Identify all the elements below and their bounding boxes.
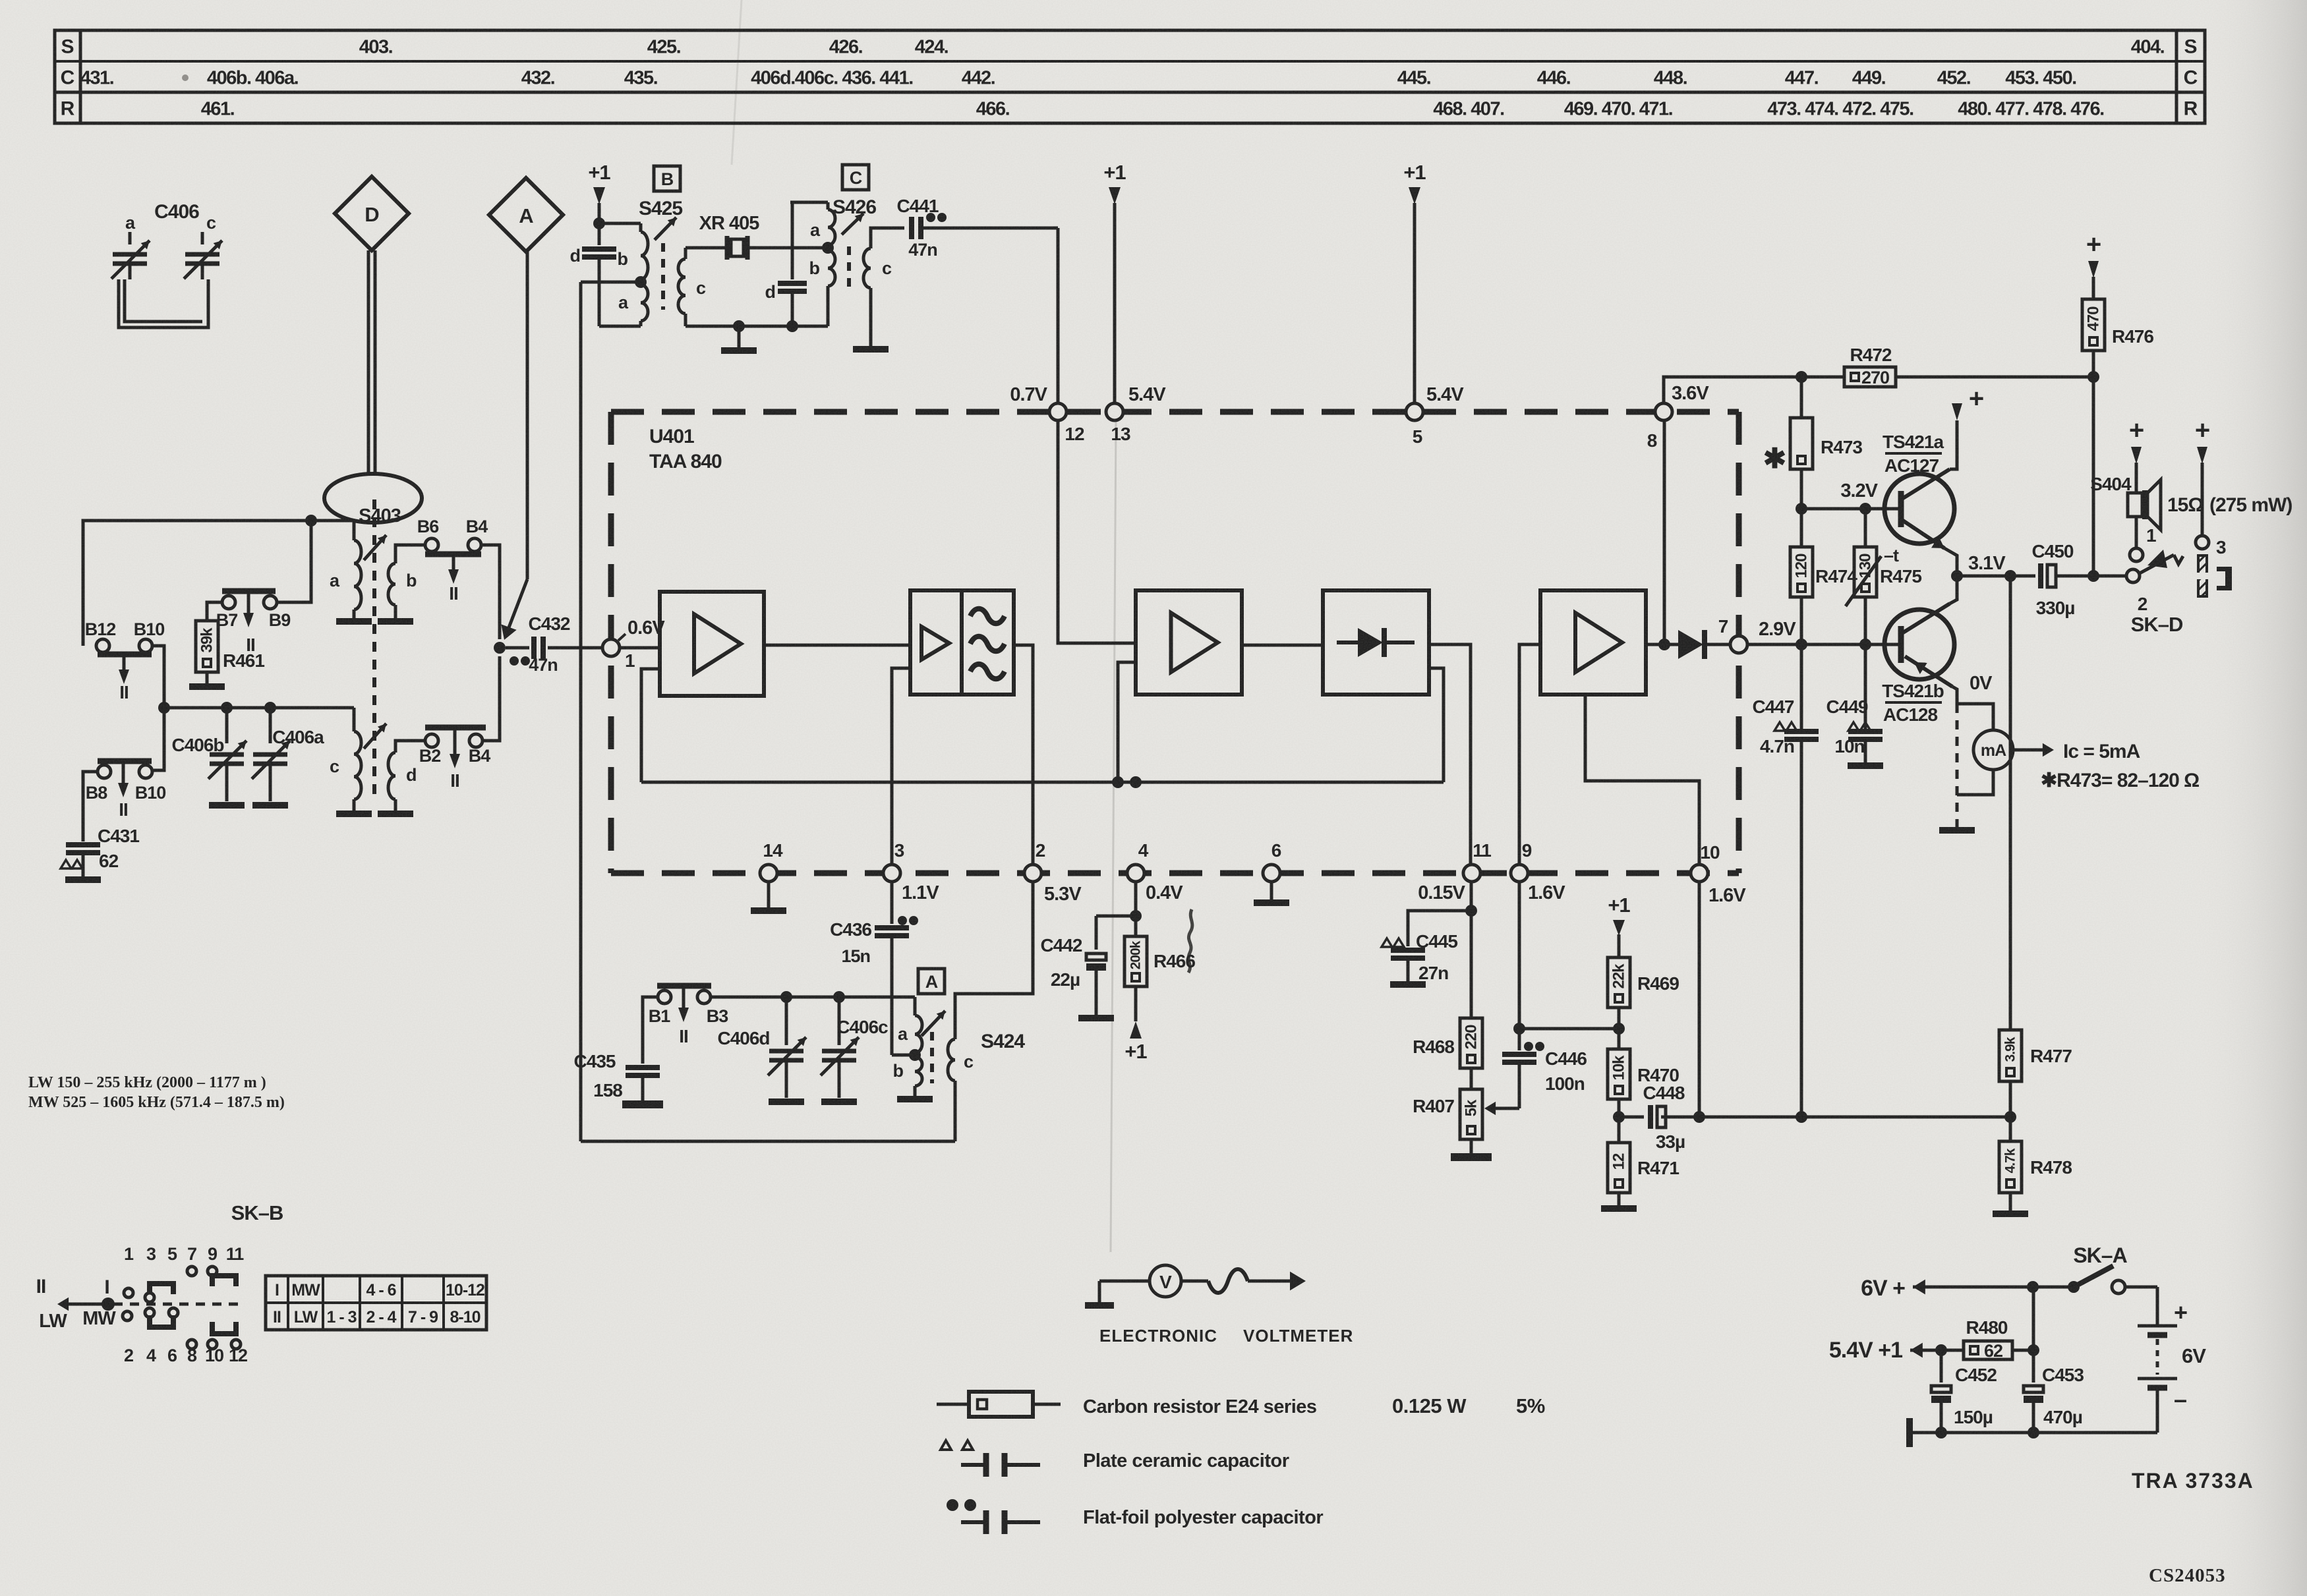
wire B7 to R461 <box>207 602 222 621</box>
TS421a base rail <box>1796 480 1902 515</box>
capacitor C445 27n (plate ceramic) <box>1382 931 1457 984</box>
SK-B bracket 9-11 <box>212 1276 236 1286</box>
LW frequency range note <box>28 1074 266 1091</box>
S426 secondary coil c <box>853 228 904 349</box>
wire C441 to pin 12 <box>1057 228 1060 403</box>
voltage 2.9V at pin 7 <box>1759 619 1796 640</box>
label S425 <box>639 198 682 219</box>
wire lower B4 to C432 node <box>482 656 500 741</box>
5.4V +1 rail <box>1829 1338 1964 1363</box>
potentiometer R407 5k <box>1413 1068 1492 1157</box>
ground at pin 6 <box>1254 882 1289 903</box>
SK-B row II arrow label <box>36 1276 46 1297</box>
SK-B wafer table <box>266 1276 486 1330</box>
voltage 1.6V at pin 9 <box>1528 882 1565 903</box>
amplifier block 3 (IF amp) <box>1136 590 1242 695</box>
label R472 value <box>0 0 1 1</box>
S403 core dashed line <box>372 499 376 794</box>
node at C432 <box>494 642 506 654</box>
SK-B bottom contact numbers <box>124 1346 247 1365</box>
wire B9 to rail <box>277 521 311 602</box>
node S425 top <box>593 217 605 229</box>
switch B7/B9 (band II) <box>216 591 291 655</box>
junction node B9 rail <box>305 515 317 527</box>
pin12 wire to block3 <box>1058 420 1136 643</box>
block1 AGC notch <box>641 669 660 782</box>
capacitor S426-d <box>765 202 807 326</box>
block5 output node <box>1646 639 1678 650</box>
variable capacitor C406c <box>821 997 888 1102</box>
+1 supply to pin 13 <box>1103 161 1126 403</box>
voltage 0.7V at pin 12 <box>1010 384 1047 405</box>
voltage 3.6V at pin 8 <box>1672 383 1709 404</box>
resistor R471 12 <box>1601 1117 1679 1209</box>
capacitor C453 470u (electrolytic) <box>2024 1350 2084 1433</box>
wire pin3 to C436 <box>891 882 894 924</box>
SK-B contact 9 circle <box>208 1267 217 1276</box>
S425 secondary coil c <box>678 248 706 326</box>
ferrite rod (antenna) ellipse <box>324 474 422 523</box>
label U401 TAA 840 <box>649 426 722 472</box>
junction rail pins9-R469 <box>1519 1023 1625 1035</box>
wire pin10 down to rail <box>1698 882 1701 1117</box>
S424 primary coil a <box>898 997 922 1053</box>
wire to C445 <box>1408 911 1471 946</box>
wire upper B4 to C432 node <box>481 545 500 639</box>
voltage 5.4V at pin 13 <box>1128 384 1166 405</box>
label SK-D <box>2131 613 2183 636</box>
pin 12 of U401 <box>1049 403 1084 444</box>
+ supply above TS421a <box>1952 384 1983 423</box>
pin 10 of U401 <box>1691 842 1720 882</box>
capacitor C436 15n (flat-foil) <box>830 916 918 1055</box>
resistor R477 3.9k <box>1999 1030 2072 1117</box>
+1 supply to S425 <box>588 161 610 223</box>
amplifier block 1 (RF amp) <box>660 592 764 696</box>
oscillator loop left riser <box>579 282 583 1141</box>
mixer/filter block 2 <box>910 590 1014 695</box>
voltage 0.6V at pin 1 <box>628 617 665 639</box>
SK-D moving contact arrow <box>2147 550 2167 568</box>
oscillator loop bottom rail <box>581 1140 955 1143</box>
SK-D spring contact <box>2140 555 2183 573</box>
capacitor C448 33u (electrolytic) <box>1619 1083 1699 1152</box>
pin 6 of U401 <box>1263 840 1281 882</box>
wire R480 junction to 6V rail <box>2032 1287 2035 1350</box>
+1 supply to R469 <box>1608 894 1630 957</box>
resistor R469 22k <box>1608 957 1679 1029</box>
SK-B bracket 10-12 <box>208 1322 241 1349</box>
SK-B bracket 4-6 <box>145 1308 178 1327</box>
pin 11 of U401 <box>1463 840 1491 882</box>
wire B8 down to C431 <box>83 772 98 841</box>
capacitor C432 47n (flat-foil) <box>506 613 603 675</box>
component location table S/C/R <box>55 30 2205 123</box>
block5 notch to pin10 <box>1585 695 1699 865</box>
SK-B contact 8 circle <box>187 1340 196 1349</box>
wire R476 junction down to output rail <box>2088 377 2099 582</box>
wire junction to C442 <box>1096 915 1136 918</box>
resistor R474 120 <box>1790 509 1857 642</box>
battery return rail <box>1910 1418 2157 1447</box>
wire B12 riser / top rail to S403 <box>83 521 354 646</box>
gang tuning capacitor C406 (sections a, c) <box>111 201 222 328</box>
switch SK-A <box>2073 1243 2127 1294</box>
block2 notch to pin 3 <box>892 668 910 865</box>
frame B <box>654 166 680 191</box>
resistor R472 270 <box>1801 345 2093 387</box>
pin 13 of U401 <box>1106 403 1130 444</box>
resistor R473 (82-120) <box>1763 377 1862 509</box>
block3 bias notch <box>1118 662 1136 782</box>
pin 4 of U401 <box>1127 840 1149 882</box>
S403 coil a <box>330 540 372 621</box>
S403 trimmer arrow upper <box>364 535 386 560</box>
speaker S404 15ohm <box>2090 416 2292 548</box>
note R473 selection <box>2041 770 2199 791</box>
capacitor C447 4.7n (plate ceramic) <box>1753 642 1819 1117</box>
R407 wiper from C446 <box>1484 1102 1519 1116</box>
ground under XR405 <box>721 326 757 351</box>
wire S425 tap to oscillator loop <box>581 281 641 284</box>
ground at pin 14 <box>751 882 786 911</box>
capacitor C435 158 <box>574 1051 663 1104</box>
label S424 <box>981 1031 1025 1052</box>
voltage 5.3V at pin 2 <box>1044 884 1082 905</box>
block4 output to pin 11 <box>1429 644 1471 865</box>
carbon resistor legend <box>937 1392 1545 1417</box>
bias rail C448 to R477 <box>1693 1111 2016 1123</box>
S425 core dashed <box>661 243 665 310</box>
block4 feedback notch <box>1429 668 1444 782</box>
voltage 0.15V at pin 11 <box>1418 882 1465 903</box>
AGC feedback line <box>641 776 1444 788</box>
IC U401 TAA840 dashed outline <box>611 412 1739 873</box>
S424 secondary coil c <box>948 882 1033 1141</box>
test point diamond D <box>335 177 409 250</box>
S426 ground rail <box>686 320 828 332</box>
S403 label <box>359 505 401 527</box>
mA meter in emitter (dashed) <box>1939 704 2013 830</box>
pin 9 of U401 <box>1511 840 1532 882</box>
pin 5 of U401 <box>1406 403 1423 447</box>
S425 trimmer arrow <box>655 217 676 240</box>
S426 primary coil a <box>810 202 835 245</box>
capacitor S425-d <box>570 223 617 326</box>
label CS24053 <box>2149 1565 2226 1586</box>
SK-B row I <box>104 1276 173 1302</box>
voltage 0.4V at pin 4 <box>1146 882 1183 903</box>
signal injection arrow from A to C432 node <box>501 252 527 640</box>
+1 supply below R466 <box>1124 986 1147 1063</box>
S426 trimmer arrow <box>842 214 863 235</box>
resistor R478 4.7k <box>1993 1117 2072 1214</box>
resistor R461 39k <box>189 621 264 687</box>
voltage 1.6V at pin 10 <box>1708 885 1746 906</box>
detector output diode <box>1678 630 1729 659</box>
S425 tap junction <box>635 276 647 288</box>
label TRA 3733A <box>2132 1469 2254 1493</box>
transistor TS421a AC127 <box>1883 422 1957 568</box>
S403 coil b <box>378 545 424 621</box>
pin8 internal riser <box>1663 420 1666 644</box>
S424 trimmer arrow <box>921 1011 945 1036</box>
variable capacitor C406b <box>171 708 247 805</box>
voltage 0V at TS421b emitter <box>1970 673 1993 694</box>
SK-D contact 2 <box>2126 569 2147 614</box>
TS421b base wire from pin 7 <box>1747 639 1901 650</box>
switch B2/B4 (band II) <box>419 727 490 791</box>
resistor R466 200k <box>1124 916 1195 986</box>
S424 primary coil b <box>893 1057 933 1099</box>
transistor TS421b AC128 <box>1882 584 1957 725</box>
wire SK-A to battery <box>2125 1287 2157 1325</box>
capacitor C441 47n (flat-foil) <box>897 196 1058 260</box>
pin 3 of U401 <box>883 840 904 882</box>
+1 supply to pin 5 <box>1403 161 1426 403</box>
capacitor C442 22u (electrolytic) <box>1041 916 1114 1018</box>
flat-foil polyester capacitor legend <box>947 1499 1323 1534</box>
test point diamond A <box>489 178 563 252</box>
crystal filter XR405 <box>686 213 824 260</box>
pin 8 of U401 <box>1647 403 1672 451</box>
pin9 riser to block5 <box>1519 644 1540 865</box>
S426 primary coil b <box>809 250 836 326</box>
S426 top loop <box>790 201 828 204</box>
capacitor C449 10n (plate ceramic) <box>1826 642 1883 766</box>
wire output node to R477 <box>2009 576 2012 1030</box>
oscillator tank rail B3 <box>711 991 915 1003</box>
resistor R480 62 <box>1964 1317 2039 1361</box>
label S426 <box>832 196 876 218</box>
switch B1/B3 (band II) <box>649 986 728 1046</box>
capacitor C446 100n (flat-foil) <box>1502 1042 1587 1108</box>
switch B6/B4 (band II) <box>417 517 488 604</box>
variable capacitor C406d <box>717 997 806 1102</box>
S403 trimmer arrow lower <box>364 724 386 749</box>
S426 core dashed <box>847 246 851 288</box>
capacitor C450 330u (electrolytic) <box>2032 541 2126 618</box>
headphone jack branch + <box>2195 416 2209 536</box>
wire B1 to C435 <box>643 997 658 1064</box>
capacitor C452 150u (electrolytic) <box>1931 1350 1997 1433</box>
thermistor R475 130 <box>1846 509 1921 642</box>
tank rail (C406b/C406a) <box>158 702 354 714</box>
SK-B LW MW labels <box>39 1308 132 1332</box>
wire S425 bottom <box>599 325 641 328</box>
wire pin8 riser to R472 rail <box>1664 371 1807 403</box>
resistor R468 220 <box>1413 1018 1482 1068</box>
block2 output to pin 2 <box>1014 645 1033 865</box>
headphone icon <box>2217 567 2232 590</box>
wire pin11 to R468 <box>1465 882 1477 1018</box>
wire B10 down to tank rail <box>152 646 164 770</box>
jack contact 3 <box>2196 536 2226 557</box>
wire block1 to block2 <box>764 644 910 647</box>
pin 14 of U401 <box>760 840 783 882</box>
electronic voltmeter legend <box>1085 1265 1353 1346</box>
pin 1 of U401 <box>602 634 635 671</box>
S424 core dashed <box>930 1032 934 1083</box>
amplifier block 5 (AF preamp) <box>1540 590 1646 695</box>
6V rail with arrow <box>1861 1276 2080 1301</box>
label SK-B <box>231 1201 283 1224</box>
frame C <box>842 165 869 190</box>
wire pin4 to junction <box>1130 882 1142 922</box>
S403 coil c <box>330 708 372 814</box>
S425 primary coil a <box>618 285 648 326</box>
S425 primary coil b <box>618 223 649 279</box>
frame A <box>918 969 945 994</box>
wire pin9 down <box>1513 882 1525 1050</box>
switch B12/B10 (band II) <box>85 619 165 702</box>
headphone jack plug <box>2196 556 2209 596</box>
Ic arrow and label <box>2014 741 2140 762</box>
SK-D contact 1 <box>2130 525 2156 561</box>
capacitor C431 62 (plate ceramic) <box>61 826 139 880</box>
pin 7 of U401 <box>1718 616 1747 653</box>
resistor R476 470 <box>2082 230 2153 383</box>
S426 tap junction <box>822 242 834 254</box>
plate ceramic capacitor legend <box>941 1440 1289 1477</box>
voltage 5.4V at pin 5 <box>1426 384 1464 405</box>
pin 2 of U401 <box>1024 840 1045 882</box>
battery 6V <box>2138 1299 2206 1433</box>
SK-B top contact numbers <box>124 1244 244 1264</box>
detector diode block 4 <box>1323 590 1429 695</box>
switch B8/B10 (band II) <box>86 761 166 820</box>
SK-B contact 7 circle <box>187 1267 196 1276</box>
block3 to block4 <box>1242 644 1323 647</box>
voltage 1.1V at pin 3 <box>902 882 939 903</box>
resistor R470 10k <box>1608 1029 1679 1123</box>
ferrite rod antenna drop wire <box>368 250 375 474</box>
MW frequency range note <box>28 1094 285 1111</box>
variable capacitor C406a <box>252 708 324 805</box>
output node 3.1V rail <box>1951 553 2035 584</box>
SK-B dashed travel line <box>57 1297 239 1311</box>
S424 tap junction <box>909 1049 921 1061</box>
S403 coil d <box>378 741 424 814</box>
wire S425 top <box>599 222 641 225</box>
wire pin1 to block1 <box>620 646 660 650</box>
paper crease <box>1111 422 1116 1252</box>
